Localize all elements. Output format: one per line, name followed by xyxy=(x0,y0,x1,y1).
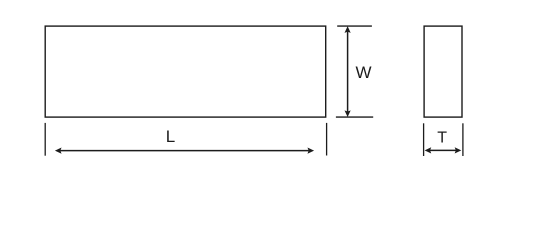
T extension line left xyxy=(423,123,425,156)
W dimension line xyxy=(347,32,349,112)
svg-text:L: L xyxy=(166,127,175,146)
W arrowhead top xyxy=(345,27,350,32)
W extension line top xyxy=(337,25,372,27)
L extension line right xyxy=(326,123,328,156)
svg-text:W: W xyxy=(355,63,371,82)
W arrowhead bottom xyxy=(345,111,350,116)
T arrowhead left xyxy=(425,148,430,153)
T arrowhead right xyxy=(455,148,460,153)
plate front view outline xyxy=(45,26,326,117)
L arrowhead right xyxy=(308,148,313,153)
plate side view outline xyxy=(424,26,462,117)
T extension line right xyxy=(462,123,464,156)
svg-text:T: T xyxy=(437,130,447,147)
L arrowhead left xyxy=(56,148,61,153)
W extension line bottom xyxy=(336,116,373,118)
L dimension line xyxy=(60,150,309,152)
L extension line left xyxy=(44,123,46,156)
T dimension line xyxy=(430,149,456,151)
